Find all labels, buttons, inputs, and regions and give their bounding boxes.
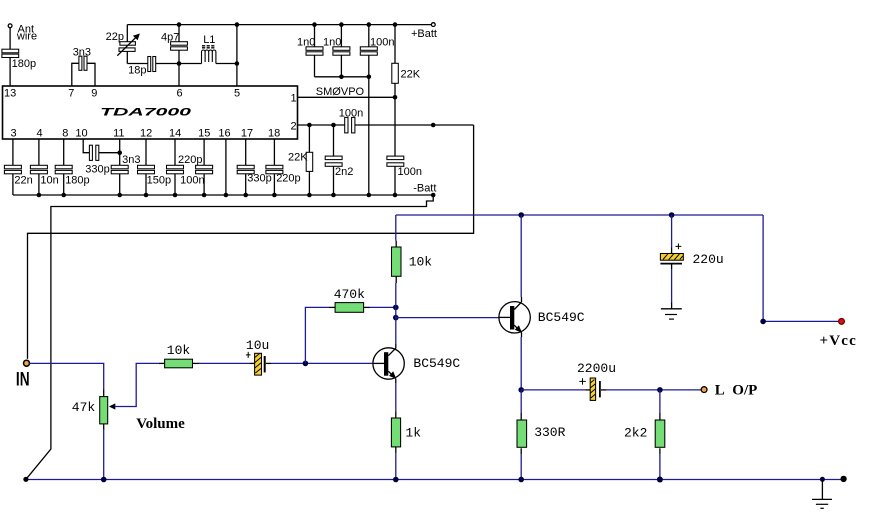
svg-text:1: 1 bbox=[291, 93, 297, 105]
wire 10k to 10u bbox=[193, 362, 255, 364]
svg-text:BC549C: BC549C bbox=[538, 310, 585, 325]
wire Q2 emitter down bbox=[520, 337, 522, 390]
capacitor 3n3 (pins 7-9) bbox=[79, 56, 87, 70]
svg-text:6: 6 bbox=[177, 88, 183, 100]
junction dots pin2 bbox=[307, 123, 435, 128]
wire pin 2 left bbox=[298, 124, 345, 126]
svg-text:5: 5 bbox=[234, 88, 240, 100]
svg-text:100n: 100n bbox=[370, 37, 394, 49]
wire +Batt top rail bbox=[127, 24, 431, 26]
pin 18 capacitor 220p bbox=[266, 139, 283, 195]
svg-text:100n: 100n bbox=[339, 107, 363, 119]
pin 14 capacitor 100n bbox=[167, 139, 184, 195]
svg-text:2: 2 bbox=[291, 121, 297, 133]
wire 10k b to Q1 collector bbox=[395, 283, 397, 344]
wire to Q2 base bbox=[396, 317, 499, 319]
wire ground rail -Batt bbox=[13, 194, 433, 196]
svg-text:Volume: Volume bbox=[136, 416, 185, 432]
wire pin 1 (SM0VPO net) bbox=[298, 96, 396, 98]
junction dot 2k2 node bbox=[657, 387, 663, 393]
inductor L1 bbox=[202, 46, 216, 64]
wire 180p to pin 13 bbox=[9, 58, 11, 87]
wire decoupling caps bottom bbox=[315, 76, 369, 78]
resistor 470k bbox=[335, 303, 364, 313]
wire pin 9 to 3n3 bbox=[86, 63, 95, 86]
pin 11 capacitor 3n3 bbox=[111, 139, 128, 195]
pin 8 capacitor 180p bbox=[55, 139, 72, 195]
wire ground rail bottom bbox=[26, 479, 843, 481]
capacitor 18p bbox=[148, 57, 156, 72]
pin 15 capacitor 220p bbox=[196, 139, 213, 195]
svg-text:3n3: 3n3 bbox=[73, 46, 91, 58]
transistor Q2 BC549C bbox=[499, 297, 530, 337]
wire wiper to 10k bbox=[159, 362, 165, 364]
wire supply to 10k b bbox=[395, 215, 397, 241]
svg-text:10n: 10n bbox=[40, 174, 58, 186]
terminal rail right end bbox=[840, 476, 846, 482]
IC U1 TDA7000 bbox=[3, 86, 298, 139]
wire 22p to 18p bbox=[127, 63, 148, 65]
svg-text:220p: 220p bbox=[178, 154, 202, 166]
svg-text:9: 9 bbox=[91, 88, 97, 100]
svg-text:2200u: 2200u bbox=[577, 361, 616, 376]
junction dot rail left end bbox=[23, 477, 28, 482]
capacitor 1n0 b bbox=[333, 25, 350, 77]
wire pin 2 right bbox=[355, 124, 474, 126]
wire 470k right bbox=[364, 306, 396, 308]
ground 220u bbox=[661, 309, 682, 319]
transistor Q1 BC549C bbox=[373, 344, 404, 383]
pin 10 wire to 330p bbox=[83, 139, 89, 153]
svg-text:3: 3 bbox=[11, 128, 17, 140]
wire node to 470k bbox=[305, 307, 329, 363]
terminal L O/P bbox=[701, 387, 707, 393]
wire node6 column bbox=[178, 64, 180, 87]
capacitor 2n2 bbox=[325, 125, 342, 195]
junction dot audio node bbox=[303, 361, 309, 367]
capacitor 10u bbox=[246, 352, 265, 375]
svg-text:12: 12 bbox=[140, 128, 152, 140]
resistor 10k b bbox=[392, 241, 402, 283]
svg-text:14: 14 bbox=[169, 128, 181, 140]
wire 470k left stub bbox=[329, 306, 335, 308]
junction dot +Vcc corner bbox=[760, 319, 766, 325]
svg-text:1n0: 1n0 bbox=[323, 37, 341, 49]
wire emitter node to 2200u bbox=[521, 389, 590, 391]
junction dots top area bbox=[177, 22, 240, 66]
svg-text:+Vcc: +Vcc bbox=[820, 333, 858, 349]
svg-text:22K: 22K bbox=[401, 69, 421, 81]
junction dot Q2 base node bbox=[393, 315, 399, 321]
wire 18p to node 6 bbox=[156, 63, 179, 65]
svg-text:10: 10 bbox=[75, 128, 87, 140]
junction dot pin11 bbox=[117, 150, 122, 155]
svg-text:wire: wire bbox=[16, 31, 37, 43]
svg-text:10k: 10k bbox=[409, 254, 433, 269]
svg-text:18: 18 bbox=[268, 128, 280, 140]
svg-text:22K: 22K bbox=[288, 152, 308, 164]
capacitor 2200u bbox=[579, 378, 600, 400]
junction dots decoupling bbox=[312, 22, 397, 79]
svg-text:220p: 220p bbox=[276, 173, 300, 185]
svg-text:22n: 22n bbox=[14, 174, 32, 186]
ground bottom right bbox=[812, 480, 832, 509]
wire 10u to Q1 base bbox=[266, 362, 373, 364]
svg-text:180p: 180p bbox=[12, 58, 36, 70]
pin 4 capacitor 10n bbox=[30, 139, 47, 195]
svg-text:17: 17 bbox=[241, 128, 253, 140]
wire node5 column bbox=[236, 25, 238, 86]
wire 22K node down bbox=[394, 97, 396, 156]
svg-text:47k: 47k bbox=[72, 400, 96, 415]
svg-text:L1: L1 bbox=[203, 34, 215, 46]
wire Q1 emitter to 1k bbox=[395, 383, 397, 412]
svg-text:8: 8 bbox=[62, 128, 68, 140]
svg-text:15: 15 bbox=[198, 128, 210, 140]
junction dot 470k/collector bbox=[393, 305, 399, 311]
terminal IN bbox=[24, 360, 30, 366]
junction dot pin1/22K bbox=[393, 95, 398, 100]
svg-text:100n: 100n bbox=[180, 174, 204, 186]
svg-text:10k: 10k bbox=[167, 343, 191, 358]
wire antenna to 180p bbox=[9, 28, 11, 50]
svg-text:-Batt: -Batt bbox=[413, 183, 436, 195]
resistor 330R bbox=[517, 390, 527, 480]
capacitor 180p bbox=[2, 49, 19, 57]
svg-text:SMØVPO: SMØVPO bbox=[316, 86, 365, 98]
svg-text:16: 16 bbox=[218, 128, 230, 140]
wire pin 7 to 3n3 bbox=[72, 63, 79, 86]
junction dot supply 220u bbox=[669, 212, 675, 218]
svg-text:BC549C: BC549C bbox=[413, 356, 460, 371]
svg-text:3n3: 3n3 bbox=[122, 154, 140, 166]
svg-text:2k2: 2k2 bbox=[624, 425, 647, 440]
capacitor 100n e (series) bbox=[345, 117, 355, 132]
svg-text:TDA7000: TDA7000 bbox=[100, 107, 193, 119]
svg-text:1n0: 1n0 bbox=[297, 37, 315, 49]
svg-text:18p: 18p bbox=[128, 65, 146, 77]
capacitor 4p7 bbox=[171, 25, 188, 64]
pin 3 capacitor 22n bbox=[4, 139, 21, 195]
svg-text:470k: 470k bbox=[334, 287, 365, 302]
junction dots ground rail bbox=[37, 193, 436, 198]
junction dot supply Q2 bbox=[518, 212, 524, 218]
pot wiper arrow bbox=[109, 363, 159, 409]
resistor 22K b bbox=[306, 125, 313, 195]
svg-text:220u: 220u bbox=[693, 252, 724, 267]
svg-text:180p: 180p bbox=[65, 174, 89, 186]
svg-text:100n: 100n bbox=[398, 166, 422, 178]
svg-text:1k: 1k bbox=[405, 425, 421, 440]
LOWER AUDIO AMP CIRCUIT bbox=[16, 212, 857, 508]
wire node column x369 bbox=[368, 77, 370, 195]
pin 12 capacitor 150p bbox=[138, 139, 155, 195]
wire supply corner to +Vcc bbox=[763, 215, 839, 321]
svg-text:7: 7 bbox=[68, 88, 74, 100]
wire 1k to rail bbox=[395, 453, 397, 480]
resistor 22K a bbox=[392, 25, 399, 98]
capacitor 22p trimmer bbox=[117, 25, 140, 64]
svg-text:+Batt: +Batt bbox=[411, 28, 437, 40]
wire pot to rail bbox=[103, 429, 105, 480]
wire Q2 collector to supply bbox=[520, 215, 522, 297]
wire -Batt return bbox=[27, 195, 433, 478]
resistor 10k a bbox=[165, 359, 193, 368]
junction dot Q2 emitter node bbox=[518, 387, 524, 393]
capacitor 1n0 a bbox=[306, 25, 323, 77]
svg-text:L O/P: L O/P bbox=[715, 382, 758, 398]
capacitor 220u bbox=[660, 215, 683, 309]
label Ant wire bbox=[16, 23, 37, 42]
wire pin2 to audio out bbox=[28, 125, 474, 359]
capacitor 100n d bbox=[387, 156, 404, 195]
svg-text:150p: 150p bbox=[147, 174, 171, 186]
terminal +Batt bbox=[431, 23, 435, 27]
pin 17 capacitor 330p bbox=[237, 139, 254, 195]
svg-text:330R: 330R bbox=[534, 425, 565, 440]
svg-text:13: 13 bbox=[4, 88, 16, 100]
svg-text:22p: 22p bbox=[106, 31, 124, 43]
pin 16 wire bbox=[225, 139, 227, 195]
wire supply top bbox=[396, 214, 763, 216]
svg-text:2n2: 2n2 bbox=[335, 166, 353, 178]
wire IN to volume pot bbox=[29, 363, 104, 389]
wire L1 to node 5 bbox=[179, 63, 237, 65]
resistor 2k2 bbox=[655, 390, 665, 480]
resistor 1k bbox=[391, 412, 400, 454]
svg-text:4: 4 bbox=[37, 128, 43, 140]
capacitor 100n c bbox=[360, 25, 377, 77]
antenna terminal bbox=[8, 24, 12, 28]
potentiometer 47k bbox=[100, 390, 108, 431]
svg-text:4p7: 4p7 bbox=[161, 32, 179, 44]
terminal +Vcc bbox=[839, 319, 845, 325]
svg-text:330p: 330p bbox=[85, 163, 109, 175]
wire 2200u to L O/P bbox=[601, 389, 701, 391]
junction dots bottom rail bbox=[101, 477, 825, 483]
capacitor 330p (pin10-11) bbox=[89, 145, 119, 160]
svg-text:11: 11 bbox=[113, 128, 124, 140]
svg-text:10u: 10u bbox=[246, 338, 269, 353]
svg-text:IN: IN bbox=[16, 368, 30, 390]
